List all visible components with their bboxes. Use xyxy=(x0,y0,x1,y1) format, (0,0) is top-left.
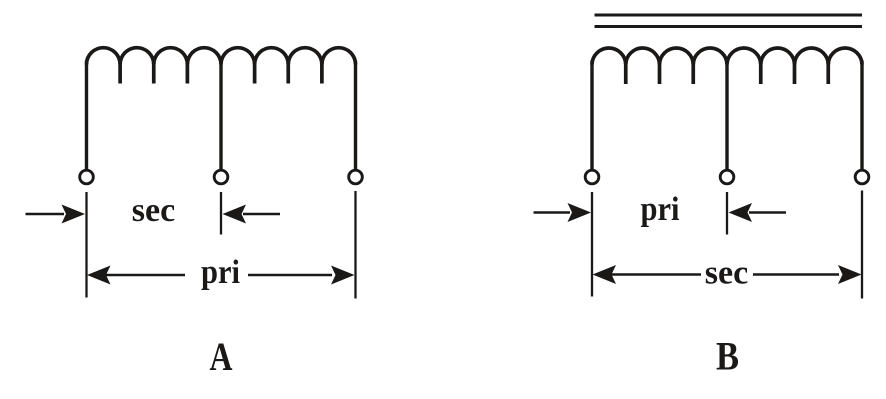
wire: winding A left lead xyxy=(85,61,88,171)
dimension sec (B): left arrowhead xyxy=(593,265,617,284)
dimension sec (A): left arrow tail xyxy=(26,213,65,216)
dimension pri (B): left arrowhead xyxy=(568,203,592,222)
inductor winding L_A (autotransformer A) arcs xyxy=(87,48,356,65)
dimension pri (A): right arrowhead xyxy=(331,266,355,285)
wire: winding B right lead xyxy=(860,61,863,171)
wire: winding B center tap lead xyxy=(725,61,728,171)
terminal: winding B center tap xyxy=(720,170,734,184)
dimension pri (B): left arrow tail xyxy=(534,211,571,214)
ferromagnetic core line 1 (B) xyxy=(595,14,863,17)
extension line: B center tap xyxy=(726,192,728,235)
dimension pri (A): right line segment xyxy=(248,274,332,277)
dimension pri (B): right arrowhead xyxy=(729,203,753,222)
wire: winding A right lead xyxy=(354,61,357,171)
extension line: A left terminal xyxy=(85,192,87,298)
winding B inter-turn stubs xyxy=(626,61,829,85)
dimension pri (B): right arrow tail xyxy=(749,211,786,214)
extension line: A center tap xyxy=(220,192,222,235)
svg-text:B: B xyxy=(716,334,739,379)
wire: winding B left lead xyxy=(590,61,593,171)
svg-text:sec: sec xyxy=(132,192,175,229)
dimension pri (A): left line segment xyxy=(106,274,185,277)
svg-text:sec: sec xyxy=(705,255,748,292)
svg-text:pri: pri xyxy=(201,254,240,291)
terminal: winding B left xyxy=(585,170,599,184)
terminal: winding A center tap xyxy=(214,170,228,184)
dimension sec (B): right line segment xyxy=(753,273,839,276)
wire: winding A center tap lead xyxy=(219,61,222,171)
svg-text:A: A xyxy=(210,334,233,379)
dimension sec (B): right arrowhead xyxy=(838,265,862,284)
dimension sec (A): left arrowhead xyxy=(62,205,86,224)
dimension pri (A): left arrowhead xyxy=(87,266,111,285)
dimension sec (B): left line segment xyxy=(611,273,701,276)
winding A inter-turn stubs xyxy=(120,61,322,84)
terminal: winding A left xyxy=(80,170,94,184)
inductor winding L_B (autotransformer B) arcs xyxy=(592,48,862,64)
terminal: winding A right xyxy=(349,170,363,184)
extension line: A right terminal xyxy=(354,191,356,299)
dimension sec (A): right arrow tail xyxy=(243,213,280,216)
extension line: B right terminal xyxy=(861,191,863,299)
terminal: winding B right xyxy=(855,170,869,184)
extension line: B left terminal xyxy=(591,192,593,297)
dimension sec (A): right arrowhead xyxy=(223,205,247,224)
svg-text:pri: pri xyxy=(641,191,680,228)
ferromagnetic core line 2 (B) xyxy=(595,25,863,28)
